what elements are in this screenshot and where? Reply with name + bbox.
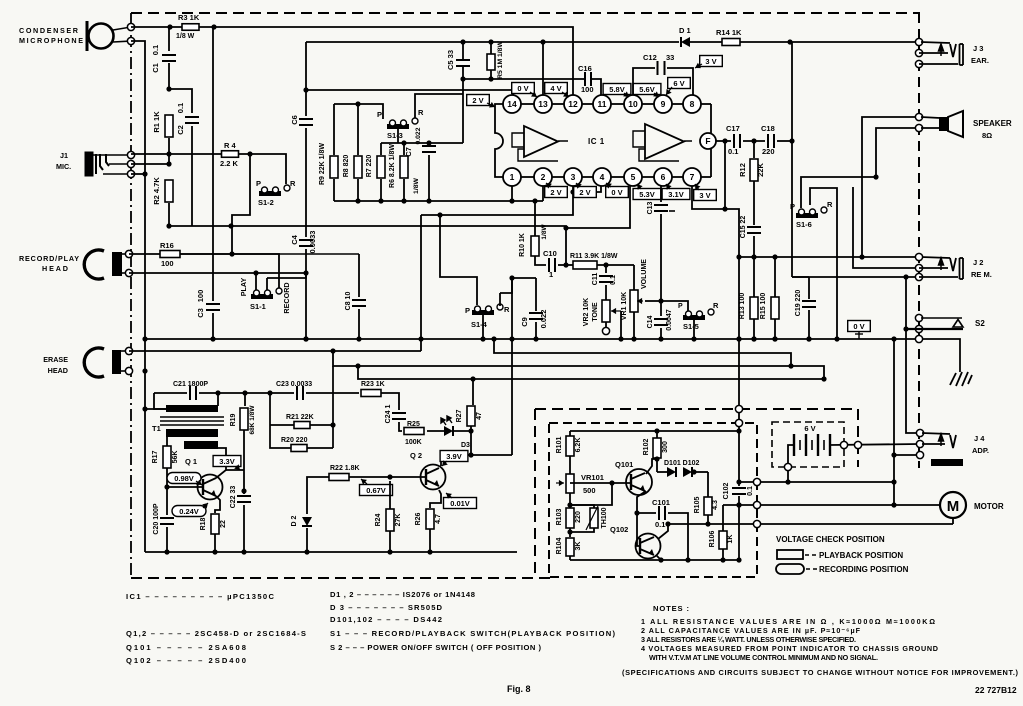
pointer arrow [695,184,700,190]
svg-text:S2: S2 [975,319,985,328]
wire [605,265,607,273]
svg-text:R15 100: R15 100 [760,293,767,320]
junction [401,140,406,145]
wire [266,278,268,290]
terminal crossing osc box right [753,478,760,485]
wire R22 to D2 [307,477,329,514]
capacitor C20 [160,518,174,524]
speaker symbol [939,111,963,137]
svg-text:11: 11 [598,99,607,109]
junction [303,270,308,275]
junction [426,140,431,145]
wire C16 right [592,79,601,95]
voltage label 4 V [545,83,568,94]
terminal J4 [916,440,923,447]
svg-text:2: 2 [541,172,546,182]
terminal J1 tip [127,151,134,158]
svg-text:C8 10: C8 10 [345,292,352,311]
adapter plug bar [931,459,963,466]
svg-text:PLAYBACK POSITION: PLAYBACK POSITION [819,551,903,560]
junction [355,101,360,106]
capacitor C10 [549,258,555,272]
wire power feed [738,339,740,431]
wire R4 junction down [232,154,250,254]
chassis ground symbol [950,372,972,386]
svg-text:C1: C1 [151,63,160,73]
svg-text:R: R [827,200,833,209]
svg-text:2 V: 2 V [550,188,561,197]
record/play head symbol [84,250,129,279]
svg-text:R: R [418,108,424,117]
wire [569,493,571,507]
terminal RP head bottom [125,269,132,276]
wire R9 top [333,104,335,155]
wire [470,426,472,431]
terminal J3 [915,49,922,56]
svg-text:C24 1: C24 1 [385,405,392,424]
pointer arrow [196,480,202,485]
svg-text:VOLUME: VOLUME [641,259,648,289]
wire speaker top [862,117,919,257]
wire rail y201 [334,200,543,202]
junction [751,254,756,259]
pointer arrow [695,63,702,68]
wire [307,447,333,449]
wire [716,140,731,142]
svg-text:R103: R103 [556,509,563,526]
svg-text:0.1: 0.1 [747,486,754,496]
svg-text:C101: C101 [652,498,670,507]
voltage label 3.3V [213,456,241,467]
wire [490,42,492,55]
wire [636,513,638,543]
svg-text:Fig. 8: Fig. 8 [507,684,531,694]
oscillator dashed box [549,423,757,577]
svg-text:0.1: 0.1 [151,45,160,55]
junction [859,254,864,259]
junction [891,336,896,341]
wire [380,179,382,201]
svg-text:0.1: 0.1 [655,520,665,529]
capacitor C14 [654,319,668,325]
transformer T1 core [160,417,224,425]
junction [509,336,514,341]
wire [657,471,667,473]
svg-text:4 V: 4 V [550,84,561,93]
switch S1-3 [387,118,418,129]
wire pin2 stub [542,186,544,201]
wire C2 branch [169,89,192,113]
terminal crossing osc box [735,419,742,426]
motor M1 [940,492,966,518]
wire [605,322,607,328]
pointer arrow [666,184,672,190]
resistor R16 [160,251,180,258]
wire [722,549,724,560]
junction [821,376,826,381]
svg-text:500: 500 [583,486,596,495]
junction [722,138,727,143]
svg-text:0.1: 0.1 [728,147,738,156]
wire [244,393,246,406]
terminal bus right [915,335,922,342]
junction [685,557,690,562]
svg-text:R16: R16 [160,241,174,250]
terminal crossing power box [735,405,742,412]
terminal speaker [915,124,922,131]
svg-text:D1 , 2 – – – – – – IS2076 or 1: D1 , 2 – – – – – – IS2076 or 1N4148 [330,590,475,599]
pointer arrow [666,87,672,95]
junction [787,39,792,44]
wire [656,458,658,472]
wire [637,512,656,514]
svg-text:R13 100: R13 100 [739,293,746,320]
wire line y366 [333,351,824,379]
resistor R25 [404,428,424,435]
junction [772,336,777,341]
wire [787,470,789,482]
svg-text:6 V: 6 V [804,424,815,433]
wire y79 rail [463,78,584,80]
voltage label 0 V [848,321,871,332]
svg-text:33: 33 [666,53,674,62]
svg-text:1: 1 [549,270,553,279]
label C13 tick [669,210,675,212]
wire R21/R20 left riser [270,393,291,448]
resistor R9 [330,156,338,178]
junction [210,336,215,341]
wire [692,471,708,473]
wire Q1 emitter [215,496,220,513]
svg-text:J 3: J 3 [973,44,983,53]
svg-text:7: 7 [690,172,695,182]
capacitor C16 [585,72,591,86]
junction [903,274,908,279]
junction [228,223,233,228]
junction [618,336,623,341]
svg-text:TONE: TONE [592,302,599,322]
svg-text:0.1: 0.1 [610,275,617,285]
junction [330,348,335,353]
voltage label 5.8V [603,84,631,95]
capacitor C3 [206,304,220,310]
wire to J3 [740,41,919,43]
voltage label 5.3V [633,189,661,200]
svg-text:C3: C3 [196,308,205,318]
junction [509,198,514,203]
svg-text:4.7: 4.7 [435,514,442,524]
capacitor C5 [456,60,470,66]
svg-text:HEAD: HEAD [42,264,68,273]
svg-text:S1 – – – RECORD/PLAYBACK SWIT: S1 – – – RECORD/PLAYBACK SWITCH(PLAYBACK… [330,629,615,638]
svg-text:4.3: 4.3 [712,500,719,510]
capacitor C8 [352,300,366,306]
wire R7 top [380,143,382,155]
IC1 pin 9 [654,95,672,113]
outer dashed border bottom [131,577,551,579]
svg-text:100: 100 [581,85,594,94]
wire R27 top [472,379,474,405]
capacitor C17 [734,134,740,148]
wire osc top rail [570,430,739,432]
wire [743,140,765,142]
svg-text:R101: R101 [556,437,563,454]
junction [142,336,147,341]
pointer arrow [202,503,208,509]
wire [656,431,658,438]
junction [772,254,777,259]
wire R21/R20 right riser [332,366,334,448]
wire [707,472,709,497]
svg-text:3K: 3K [575,542,582,551]
junction [736,502,741,507]
svg-text:22 727B12: 22 727B12 [975,685,1017,695]
outer dashed border right [918,13,920,468]
wire [919,63,958,65]
IC1 pin 12 [564,95,582,113]
junction [658,336,663,341]
wire [357,179,359,201]
svg-text:1 ALL RESISTANCE VALUES AR: 1 ALL RESISTANCE VALUES ARE IN Ω , K≈100… [641,617,935,626]
svg-text:R: R [290,179,296,188]
capacitor C19 [802,301,816,307]
wire [199,392,294,394]
wire ground column x145 [131,41,145,552]
wire to S1-4 P [440,215,477,305]
svg-text:R10 1K: R10 1K [519,233,526,257]
terminal S2 top [915,314,922,321]
wire [738,496,740,560]
pointer arrow [361,479,367,485]
wire R16 to S1-1 R [180,254,279,288]
junction [563,262,568,267]
svg-text:5.3V: 5.3V [639,190,654,199]
junction [355,198,360,203]
wire T1 to C21 line [217,393,219,406]
jack J1 symbol [85,152,131,176]
wire Q1 collector [216,448,226,478]
wire [633,312,635,339]
wire S1-1 contact 2 [267,273,306,278]
svg-text:0 V: 0 V [517,84,528,93]
terminal battery bottom [784,463,791,470]
capacitor C21 [190,386,196,400]
svg-text:Q101: Q101 [615,460,633,469]
wire Q101 base loop [570,483,612,505]
svg-text:R25: R25 [407,421,420,428]
junction [736,502,741,507]
terminal S2 bottom [915,325,922,332]
svg-text:0.98V: 0.98V [174,474,194,483]
wire [305,128,307,237]
terminal speaker [915,113,922,120]
voltage label 3.9V [440,451,468,462]
wire Q102 collector [658,524,668,539]
svg-text:S1-5: S1-5 [683,322,699,331]
op-amp IC1 body [495,104,711,177]
wire [166,527,168,552]
IC1 pin 6 [654,168,672,186]
junction [303,336,308,341]
svg-text:C20 100P: C20 100P [153,503,160,534]
svg-text:0.022: 0.022 [539,310,548,329]
svg-text:VOLTAGE CHECK POSITION: VOLTAGE CHECK POSITION [776,535,885,544]
junction [772,336,777,341]
wire R9 rail to S1-3 [334,104,383,119]
svg-text:C14: C14 [647,315,654,328]
svg-text:100K: 100K [405,439,422,446]
svg-text:Q102: Q102 [610,525,628,534]
svg-text:22: 22 [220,520,227,528]
wire [389,481,391,509]
wire [333,179,335,201]
wire J2 leads [919,268,958,277]
junction [570,189,575,194]
potentiometer VR101 [566,474,574,493]
wire motor line [723,504,940,506]
wire C21 left [154,392,187,394]
junction [658,298,663,303]
terminal erase head bottom [125,367,132,374]
terminal mic ring [127,37,134,44]
wire speaker bottom [876,128,919,177]
svg-text:WITH V.T.V.M AT LINE VOLUM: WITH V.T.V.M AT LINE VOLUME CONTROL MINI… [649,653,878,662]
junction [540,39,545,44]
svg-text:R24: R24 [375,513,382,526]
wire [381,142,463,144]
junction [736,479,741,484]
wire [753,181,755,225]
junction [167,24,172,29]
wire R4 to S1-2 R contact [239,154,286,184]
junction [903,326,908,331]
svg-text:C12: C12 [643,53,657,62]
svg-text:1/8W: 1/8W [413,177,420,193]
svg-text:R8 820: R8 820 [343,155,350,178]
svg-text:C23 0.0033: C23 0.0033 [276,381,312,388]
svg-text:C18: C18 [761,124,775,133]
junction [142,406,147,411]
junction [355,363,360,368]
wire C9 top [535,278,537,311]
IC1 pin 3 [564,168,582,186]
wire pin1 stub [511,186,513,201]
wire C12 right [667,68,693,95]
wire x512 to Q2 [471,454,512,456]
wire [738,431,740,486]
svg-text:J1: J1 [60,151,68,160]
capacitor C12 [658,61,665,75]
pointer arrow [234,464,240,470]
wire bottom rail [145,551,517,553]
terminal erase head top [125,347,132,354]
junction [401,198,406,203]
resistor R17 [163,446,171,468]
capacitor C13 [654,205,668,211]
svg-text:1/8 W: 1/8 W [176,33,195,40]
wire pin6 column [660,214,662,316]
jack J4 arrow [939,434,944,446]
svg-text:C10: C10 [543,249,557,258]
wire Q2 emitter [430,490,441,508]
resistor R7 [377,156,385,178]
op-amp B triangle [645,124,684,159]
resistor R22 [329,474,349,481]
svg-text:3 V: 3 V [705,57,716,66]
junction [891,479,896,484]
junction [460,76,465,81]
junction [631,336,636,341]
wire J4 bottom [894,454,920,456]
wire x512 upper [511,278,513,339]
capacitor C7 [422,146,436,152]
junction [488,39,493,44]
junction [427,549,432,554]
wire [168,203,170,226]
voltage label 0 V [606,187,629,198]
wire C19 node [792,276,809,278]
wire C7 bottom [428,155,430,201]
junction [166,161,171,166]
svg-text:VR101: VR101 [581,473,604,482]
junction [751,336,756,341]
wire osc bottom rail [570,559,739,561]
LED arrows [441,416,452,425]
outer dashed border top [131,12,920,14]
switch S1-2 [259,185,290,196]
wire S1-4 common down [482,314,484,339]
wire [310,424,333,426]
svg-text:SPEAKER: SPEAKER [973,119,1012,128]
resistor R12 [750,159,758,181]
voltage label 2 V [467,95,490,106]
svg-text:NOTES :: NOTES : [653,604,689,613]
wire [777,140,792,142]
svg-text:1K: 1K [727,535,734,544]
junction [736,336,741,341]
capacitor C4 [299,240,313,246]
wire S2 column to J4 top [906,277,920,433]
resistor R4 [222,151,239,158]
pin F circle [700,133,716,149]
junction [387,549,392,554]
junction [468,428,473,433]
junction [665,521,670,526]
svg-text:IC1 – – – – – – – – – µPC1350C: IC1 – – – – – – – – – µPC1350C [126,592,275,601]
junction [142,171,147,176]
junction [806,336,811,341]
junction [834,336,839,341]
svg-text:PLAY: PLAY [239,278,248,297]
transistor Q101 [626,469,652,495]
voltage label 2 V [545,187,568,198]
svg-text:C21 1800P: C21 1800P [173,381,208,388]
svg-text:Q102 – – – – – 2SD400: Q102 – – – – – 2SD400 [126,656,246,665]
svg-text:3 ALL RESISTORS ARE ¼ WATT: 3 ALL RESISTORS ARE ¼ WATT. UNLESS OTHER… [641,635,856,644]
wire S1-3 bar down [397,129,399,143]
transistor Q1 [198,475,223,500]
battery 6V [794,434,830,456]
wire [534,201,536,236]
pointer arrow [530,92,537,98]
erase head symbol [84,348,129,377]
wire speaker leads [921,117,940,128]
wire [453,430,471,432]
wire [129,253,160,255]
svg-text:EAR.: EAR. [971,56,989,65]
svg-text:RECORD: RECORD [282,282,291,313]
wire [569,556,571,560]
